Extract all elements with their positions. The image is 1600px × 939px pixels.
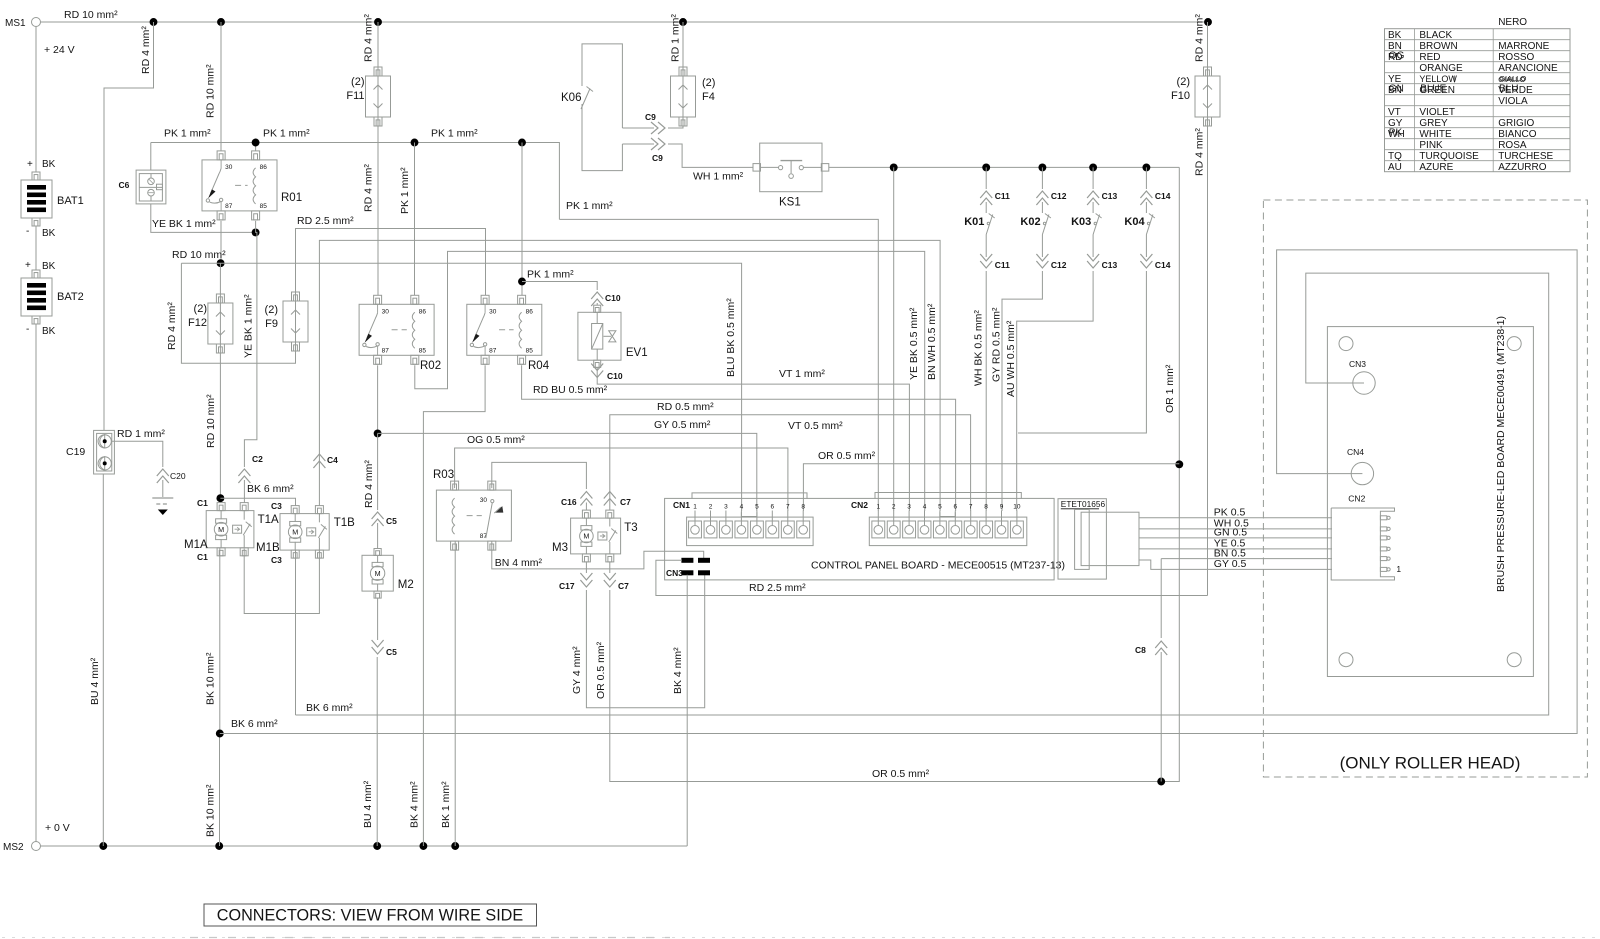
junction top bus x153 <box>150 18 158 26</box>
junction top bus x1208 <box>1204 18 1212 26</box>
svg-text:C14: C14 <box>1155 260 1171 270</box>
wire top bus to R01-30 <box>220 22 222 151</box>
relay R03 <box>436 490 511 541</box>
svg-text:MS2: MS2 <box>3 842 24 853</box>
switch K01 with connectors C11 <box>985 167 987 189</box>
wire R01-87 to RD10 bus <box>220 221 222 263</box>
svg-text:OR 0.5 mm²: OR 0.5 mm² <box>872 768 930 780</box>
wire PK to R02-86 <box>414 143 416 296</box>
svg-text:OR 0.5 mm²: OR 0.5 mm² <box>595 641 607 699</box>
svg-text:CN3: CN3 <box>1349 359 1366 369</box>
wire R01-86 to PK bus <box>255 143 257 151</box>
junction top bus x221 <box>217 18 225 26</box>
switch K03 with connectors C13 <box>1092 167 1094 189</box>
switch K04 with connectors C14 <box>1145 167 1147 189</box>
svg-text:(2): (2) <box>1177 76 1190 88</box>
svg-text:9: 9 <box>1000 503 1004 510</box>
wire C10 to EV1 <box>596 303 598 305</box>
svg-text:+: + <box>25 260 31 271</box>
connector C7 upper arrow <box>604 492 616 506</box>
svg-text:RD 0.5 mm²: RD 0.5 mm² <box>657 401 714 413</box>
wire K04 stub <box>1018 283 1146 433</box>
wire T3 C7 down <box>609 562 611 573</box>
svg-text:NERO: NERO <box>1498 17 1527 28</box>
svg-text:30: 30 <box>489 308 497 315</box>
svg-text:AU WH 0.5 mm²: AU WH 0.5 mm² <box>1005 320 1017 397</box>
svg-text:BLU BK 0.5 mm²: BLU BK 0.5 mm² <box>725 298 737 377</box>
connector C20 arrow <box>157 469 169 483</box>
svg-text:F9: F9 <box>265 318 278 330</box>
wire OR0.5 CN1-8 <box>803 464 1179 511</box>
svg-text:C1: C1 <box>197 552 208 562</box>
svg-text:GRIGIO: GRIGIO <box>1498 118 1534 129</box>
svg-text:2: 2 <box>709 503 713 510</box>
wire F10 down to RD2.5 <box>1207 126 1209 596</box>
svg-text:6: 6 <box>770 503 774 510</box>
svg-text:BAT1: BAT1 <box>57 195 84 207</box>
junction WH x1042 <box>1038 163 1046 171</box>
connector C10 lower arrow <box>591 364 603 378</box>
junction YEBK x256 <box>252 228 260 236</box>
svg-text:PK 1 mm²: PK 1 mm² <box>527 269 574 281</box>
svg-text:C10: C10 <box>605 293 621 303</box>
svg-text:BIANCO: BIANCO <box>1498 129 1537 140</box>
connector CN2 on board <box>869 517 1027 546</box>
svg-text:(2): (2) <box>265 304 278 316</box>
svg-text:7: 7 <box>969 503 973 510</box>
svg-text:C6: C6 <box>119 180 130 190</box>
svg-text:PK 1 mm²: PK 1 mm² <box>431 128 478 140</box>
svg-text:GIALLO: GIALLO <box>1499 74 1526 83</box>
svg-text:R03: R03 <box>433 469 454 481</box>
svg-text:YE BK 0.5 mm²: YE BK 0.5 mm² <box>908 307 920 380</box>
svg-text:RD 1 mm²: RD 1 mm² <box>117 428 165 440</box>
svg-text:F11: F11 <box>346 90 364 102</box>
junction PK EV1 x522 <box>518 278 526 286</box>
svg-text:87: 87 <box>382 347 390 354</box>
node MS1 main switch terminal <box>32 18 41 27</box>
svg-text:BAT2: BAT2 <box>57 291 84 303</box>
wire WH to CN2-2 <box>893 167 895 511</box>
wire F9 top RD2.5 to R04-30 <box>296 229 486 296</box>
svg-text:8: 8 <box>801 503 805 510</box>
svg-text:4: 4 <box>923 503 927 510</box>
svg-text:ETET01656: ETET01656 <box>1061 499 1106 509</box>
wire PK bus to C6 <box>150 143 152 171</box>
battery BAT1 <box>32 172 40 180</box>
wire K01 to CN2-8 <box>985 283 987 511</box>
wire R03-85 BN4 to CN3pad <box>492 541 704 569</box>
connector C5 lower arrow <box>372 640 384 654</box>
motor M2 <box>362 555 393 591</box>
svg-text:TQ: TQ <box>1388 151 1402 162</box>
svg-text:M: M <box>218 525 224 534</box>
wire RD0.5 T3 to CN2-7 <box>610 415 971 511</box>
key switch KS1 <box>760 143 822 192</box>
svg-text:BN WH 0.5 mm²: BN WH 0.5 mm² <box>926 303 938 380</box>
wire BAT1 to BAT2 <box>35 226 37 270</box>
fuse F10 <box>1204 67 1212 76</box>
svg-text:C13: C13 <box>1102 260 1118 270</box>
connector C10 upper arrow <box>591 292 603 306</box>
svg-text:M3: M3 <box>552 542 568 554</box>
svg-text:F12: F12 <box>188 317 207 329</box>
svg-text:C20: C20 <box>170 471 186 481</box>
wire PK 1mm2 bus <box>151 143 560 220</box>
caption connectors view <box>204 904 537 926</box>
svg-text:C11: C11 <box>995 260 1010 270</box>
wire T1A C1 to bus BK10 <box>219 548 221 734</box>
svg-text:C8: C8 <box>1135 645 1146 655</box>
svg-text:RD 4 mm²: RD 4 mm² <box>363 164 375 212</box>
wire R04-85 RD BU to CN2-6 <box>522 365 956 511</box>
svg-text:RD 4 mm²: RD 4 mm² <box>363 14 375 62</box>
wire BK6 lower to CN4 roller <box>220 250 1577 734</box>
wire C9 upper to K06 <box>622 127 654 129</box>
svg-text:-: - <box>26 324 29 335</box>
svg-text:C9: C9 <box>652 153 663 163</box>
svg-text:BK 1 mm²: BK 1 mm² <box>440 781 452 828</box>
svg-text:30: 30 <box>225 164 233 171</box>
connector C16 arrow <box>580 492 592 506</box>
wire C8 to OR bus <box>1160 652 1162 782</box>
svg-text:1: 1 <box>1396 564 1401 574</box>
svg-text:VT: VT <box>1388 107 1401 118</box>
svg-text:85: 85 <box>526 347 534 354</box>
brush pressure board <box>1327 327 1533 677</box>
svg-text:RD 10 mm²: RD 10 mm² <box>205 394 217 448</box>
wire PK to R04-86 <box>521 143 523 296</box>
connector C4 arrow <box>313 454 325 468</box>
connector C6 <box>136 170 166 204</box>
wire K03 to CN2-10 <box>1017 283 1093 511</box>
connector C5 upper arrow <box>372 512 384 526</box>
junction top bus x683 <box>679 18 687 26</box>
svg-text:3: 3 <box>907 503 911 510</box>
wire F4 to C9 upper <box>668 126 683 128</box>
svg-text:(2): (2) <box>351 76 364 88</box>
svg-text:RD 1 mm²: RD 1 mm² <box>670 14 682 62</box>
svg-text:CN2: CN2 <box>851 500 868 510</box>
svg-text:M: M <box>375 569 381 578</box>
svg-text:C1: C1 <box>197 498 208 508</box>
fuse F12 <box>216 294 224 303</box>
svg-text:TURQUOISE: TURQUOISE <box>1419 151 1479 162</box>
legend table grid <box>1385 29 1571 172</box>
wire OR0.5 bus lower <box>610 590 1180 782</box>
connector C17 arrow <box>580 573 592 587</box>
svg-text:GY 0.5 mm²: GY 0.5 mm² <box>654 419 711 431</box>
svg-text:BU 4 mm²: BU 4 mm² <box>362 780 374 828</box>
svg-text:BK 4 mm²: BK 4 mm² <box>672 647 684 694</box>
svg-text:BK: BK <box>42 228 56 239</box>
wire RD4 loop to F9 <box>181 263 295 363</box>
svg-text:C2: C2 <box>252 454 263 464</box>
wire R04-87 to BK4 bus <box>423 365 485 846</box>
svg-text:ARANCIONE: ARANCIONE <box>1498 63 1558 74</box>
svg-text:BK 10 mm²: BK 10 mm² <box>205 652 217 705</box>
solenoid valve EV1 <box>578 312 621 360</box>
svg-text:GY RD 0.5 mm²: GY RD 0.5 mm² <box>991 307 1003 382</box>
svg-text:85: 85 <box>419 347 427 354</box>
battery BAT2 <box>32 270 40 278</box>
svg-text:EV1: EV1 <box>626 347 648 359</box>
svg-text:YE BK 1 mm²: YE BK 1 mm² <box>152 218 216 230</box>
svg-text:R01: R01 <box>281 192 302 204</box>
contactor T1A <box>206 511 254 548</box>
svg-text:RD 10 mm²: RD 10 mm² <box>205 64 217 118</box>
junction bottom bus x455 <box>451 842 459 850</box>
wire WH bus KS1 east <box>829 166 1180 168</box>
wire C9 lower to KS1 <box>668 144 753 167</box>
svg-text:WH 1 mm²: WH 1 mm² <box>693 171 744 183</box>
wire T1B C3 down to BK6 <box>295 550 297 715</box>
svg-text:GY 4 mm²: GY 4 mm² <box>571 646 583 694</box>
svg-text:BK: BK <box>42 261 56 272</box>
svg-text:CN2: CN2 <box>1348 494 1365 504</box>
control panel board box <box>665 498 1055 580</box>
wire K06 to C9 lower <box>622 143 654 145</box>
wire RD4 branch to C19 <box>104 22 154 430</box>
svg-text:OR 1 mm²: OR 1 mm² <box>1164 364 1176 413</box>
svg-text:2: 2 <box>892 503 896 510</box>
wire GY0.5 to CN1-5 <box>378 433 757 511</box>
svg-text:BU 4 mm²: BU 4 mm² <box>89 657 101 705</box>
svg-text:C14: C14 <box>1155 191 1171 201</box>
wire R03-87 BK1 to bus <box>454 541 456 846</box>
svg-text:BK: BK <box>1388 30 1402 41</box>
svg-text:T1B: T1B <box>334 517 355 529</box>
svg-text:BK 6 mm²: BK 6 mm² <box>231 718 278 730</box>
svg-text:TURCHESE: TURCHESE <box>1498 151 1553 162</box>
svg-text:BK 10 mm²: BK 10 mm² <box>205 784 217 837</box>
connector C8 arrow <box>1155 641 1167 655</box>
wire harness ETET to roller CN2 <box>1139 517 1332 519</box>
svg-text:10: 10 <box>1013 503 1021 510</box>
wire top bus to F11 <box>377 22 379 67</box>
svg-text:M1A: M1A <box>184 539 208 551</box>
svg-text:VT 0.5 mm²: VT 0.5 mm² <box>788 420 843 432</box>
wire PK to CN2-1 <box>559 219 878 511</box>
connector C19 <box>94 430 115 474</box>
svg-text:C12: C12 <box>1051 191 1067 201</box>
svg-text:5: 5 <box>938 503 942 510</box>
svg-text:T3: T3 <box>624 522 637 534</box>
ground symbol <box>152 497 173 499</box>
svg-text:AZZURRO: AZZURRO <box>1498 162 1547 173</box>
svg-text:C4: C4 <box>327 455 338 465</box>
contactor T3 <box>571 518 621 554</box>
wire R03-30 OG VT to CN1-7 <box>455 448 788 511</box>
svg-text:PK 1 mm²: PK 1 mm² <box>566 200 613 212</box>
connector CN1 on board <box>687 517 814 546</box>
dashed box only roller head <box>1263 200 1587 777</box>
svg-text:PINK: PINK <box>1419 140 1443 151</box>
fuse F9 <box>292 292 300 301</box>
svg-text:C5: C5 <box>386 647 397 657</box>
junction WH x1146 <box>1142 163 1150 171</box>
svg-text:C19: C19 <box>66 446 85 458</box>
svg-text:OG: OG <box>1389 51 1405 62</box>
svg-text:BLU: BLU <box>1499 84 1518 95</box>
svg-text:'|: '| <box>1452 76 1455 83</box>
svg-text:C12: C12 <box>1051 260 1067 270</box>
svg-text:87: 87 <box>225 203 233 210</box>
svg-text:86: 86 <box>526 308 534 315</box>
svg-text:1: 1 <box>876 503 880 510</box>
svg-text:3: 3 <box>724 503 728 510</box>
svg-text:T1A: T1A <box>258 514 279 526</box>
connector ETET01656 <box>1058 499 1106 579</box>
wire R01-85 down YE BK jog C2 <box>244 221 257 467</box>
svg-text:BK 4 mm²: BK 4 mm² <box>409 781 421 828</box>
wire BAT2 to MS2 <box>35 324 37 842</box>
svg-text:YE BK 1 mm²: YE BK 1 mm² <box>243 294 255 358</box>
svg-text:+: + <box>27 159 33 170</box>
wire C19 down BU4 to bus <box>102 474 104 846</box>
wire C19 to ground via C20 <box>112 441 163 467</box>
svg-text:AZURE: AZURE <box>1419 162 1453 173</box>
svg-text:RD 4 mm²: RD 4 mm² <box>1194 128 1206 176</box>
svg-text:30: 30 <box>480 497 488 504</box>
junction bottom bus x219 <box>215 842 223 850</box>
node MS2 main switch terminal <box>32 842 41 851</box>
wire M2 down <box>377 598 379 640</box>
junction RD10 bus x220 <box>217 259 225 267</box>
svg-text:M: M <box>583 532 589 541</box>
junction OR bus x1161 <box>1157 778 1165 786</box>
svg-text:BRUSH PRESSURE-LED BOARD MEC: BRUSH PRESSURE-LED BOARD MECE00491 (MT23… <box>1495 316 1507 592</box>
bottom cut-off artifacts <box>2 937 1598 939</box>
svg-text:C11: C11 <box>995 191 1010 201</box>
svg-text:M: M <box>292 527 298 536</box>
svg-text:RD 10 mm²: RD 10 mm² <box>64 9 118 21</box>
wire CN3pad BK4 to bus end <box>686 575 688 846</box>
svg-text:BK: BK <box>42 326 56 337</box>
junction bottom bus x377 <box>373 842 381 850</box>
wire C16 to T3 <box>585 503 587 511</box>
svg-text:ROSA: ROSA <box>1498 140 1527 151</box>
svg-text:PK 1 mm²: PK 1 mm² <box>263 128 310 140</box>
switch K06 box <box>582 44 622 128</box>
svg-text:RD 4 mm²: RD 4 mm² <box>166 302 178 350</box>
svg-text:BK 6 mm²: BK 6 mm² <box>247 483 294 495</box>
svg-text:R02: R02 <box>420 360 441 372</box>
wire RD10 bus to BLUBK CN1-4 <box>181 263 741 511</box>
svg-text:87: 87 <box>489 347 497 354</box>
wire T1A-T1B lower loop <box>244 549 319 614</box>
junction WH x893 <box>890 163 898 171</box>
wire R03-86 to C16 T3 <box>492 462 587 489</box>
contactor T1B <box>280 514 329 551</box>
svg-text:C3: C3 <box>271 555 282 565</box>
wire top bus to F4 <box>682 22 684 67</box>
svg-text:F4: F4 <box>702 91 715 103</box>
svg-text:BN 4 mm²: BN 4 mm² <box>495 557 543 569</box>
svg-text:OR 0.5 mm²: OR 0.5 mm² <box>818 450 876 462</box>
wire OR1 vertical <box>1162 167 1180 781</box>
svg-text:K02: K02 <box>1020 216 1040 228</box>
wire C6 to R01-85 YE BK <box>151 204 256 233</box>
svg-text:RD 4 mm²: RD 4 mm² <box>140 26 152 74</box>
svg-text:(2): (2) <box>194 303 207 315</box>
connector C7 lower arrow <box>604 573 616 587</box>
svg-text:+ 24 V: + 24 V <box>44 44 75 56</box>
svg-text:K01: K01 <box>964 216 984 228</box>
wire PK branch to EV1 <box>522 282 597 291</box>
wire R02-85 loop to CN2-4 <box>415 251 925 511</box>
wire F12 to T1A C1 <box>219 353 221 503</box>
svg-text:M1B: M1B <box>256 542 280 554</box>
svg-text:MS1: MS1 <box>5 18 26 29</box>
svg-text:8: 8 <box>984 503 988 510</box>
svg-text:BK: BK <box>42 159 56 170</box>
svg-text:(ONLY ROLLER HEAD): (ONLY ROLLER HEAD) <box>1340 754 1521 773</box>
svg-text:VIOLET: VIOLET <box>1419 107 1455 118</box>
svg-text:RD 2.5 mm²: RD 2.5 mm² <box>297 215 354 227</box>
svg-text:BK 6 mm²: BK 6 mm² <box>306 702 353 714</box>
svg-text:K04: K04 <box>1124 216 1145 228</box>
svg-text:F10: F10 <box>1171 90 1190 102</box>
svg-text:K06: K06 <box>561 92 581 104</box>
junction WH x986 <box>982 163 990 171</box>
svg-text:RD 10 mm²: RD 10 mm² <box>172 249 226 261</box>
svg-text:GY 0.5: GY 0.5 <box>1214 558 1247 570</box>
switch K02 with connectors C12 <box>1041 167 1043 189</box>
wire bottom 0V bus <box>41 845 688 847</box>
svg-text:CN1: CN1 <box>673 500 690 510</box>
svg-text:5: 5 <box>755 503 759 510</box>
junction WH x1093 <box>1089 163 1097 171</box>
junction RD4 x377 <box>374 429 382 437</box>
wire T3 C17 down <box>585 562 587 573</box>
svg-text:(2): (2) <box>702 77 715 89</box>
junction top bus x378 <box>374 18 382 26</box>
svg-text:RED: RED <box>1419 52 1440 63</box>
connector C2 arrow <box>238 469 250 483</box>
svg-text:C5: C5 <box>386 516 397 526</box>
svg-text:C10: C10 <box>607 371 623 381</box>
svg-text:C7: C7 <box>620 497 631 507</box>
svg-text:86: 86 <box>419 308 427 315</box>
svg-text:C3: C3 <box>271 501 282 511</box>
svg-text:4: 4 <box>740 503 744 510</box>
junction bottom bus x103 <box>99 842 107 850</box>
junction C1 x220 <box>216 494 224 502</box>
svg-text:WHITE: WHITE <box>1419 129 1452 140</box>
svg-text:BLACK: BLACK <box>1419 30 1452 41</box>
fuse F11 <box>374 67 382 76</box>
svg-text:M2: M2 <box>398 579 414 591</box>
wire C5 to bus BU4 <box>376 657 378 846</box>
wire MS1 to BAT1 <box>35 27 37 173</box>
wire R02-87 down RD4 <box>377 365 379 433</box>
junction OR x1179 <box>1175 460 1183 468</box>
svg-text:OG 0.5 mm²: OG 0.5 mm² <box>467 434 525 446</box>
svg-text:CONTROL PANEL BOARD - MECE0051: CONTROL PANEL BOARD - MECE00515 (MT237-1… <box>811 560 1065 572</box>
svg-text:CONNECTORS: VIEW FROM WIRE SID: CONNECTORS: VIEW FROM WIRE SIDE <box>217 907 524 925</box>
wire BK6 jumper T1A-T1B <box>220 498 295 505</box>
connector C9 lower arrow <box>651 138 665 150</box>
wire EV1 C10 to CN2-3 VT1 <box>597 367 909 511</box>
wire GY4 to CN3pad <box>586 575 704 708</box>
svg-text:RD 4 mm²: RD 4 mm² <box>1194 14 1206 62</box>
wire bus to F12 <box>219 263 221 294</box>
wire F11 to R02-30 <box>377 126 379 295</box>
svg-text:KS1: KS1 <box>779 197 801 209</box>
relay R04 <box>467 304 542 355</box>
wire T1B-86 C4 to CN2-5 <box>319 240 940 511</box>
